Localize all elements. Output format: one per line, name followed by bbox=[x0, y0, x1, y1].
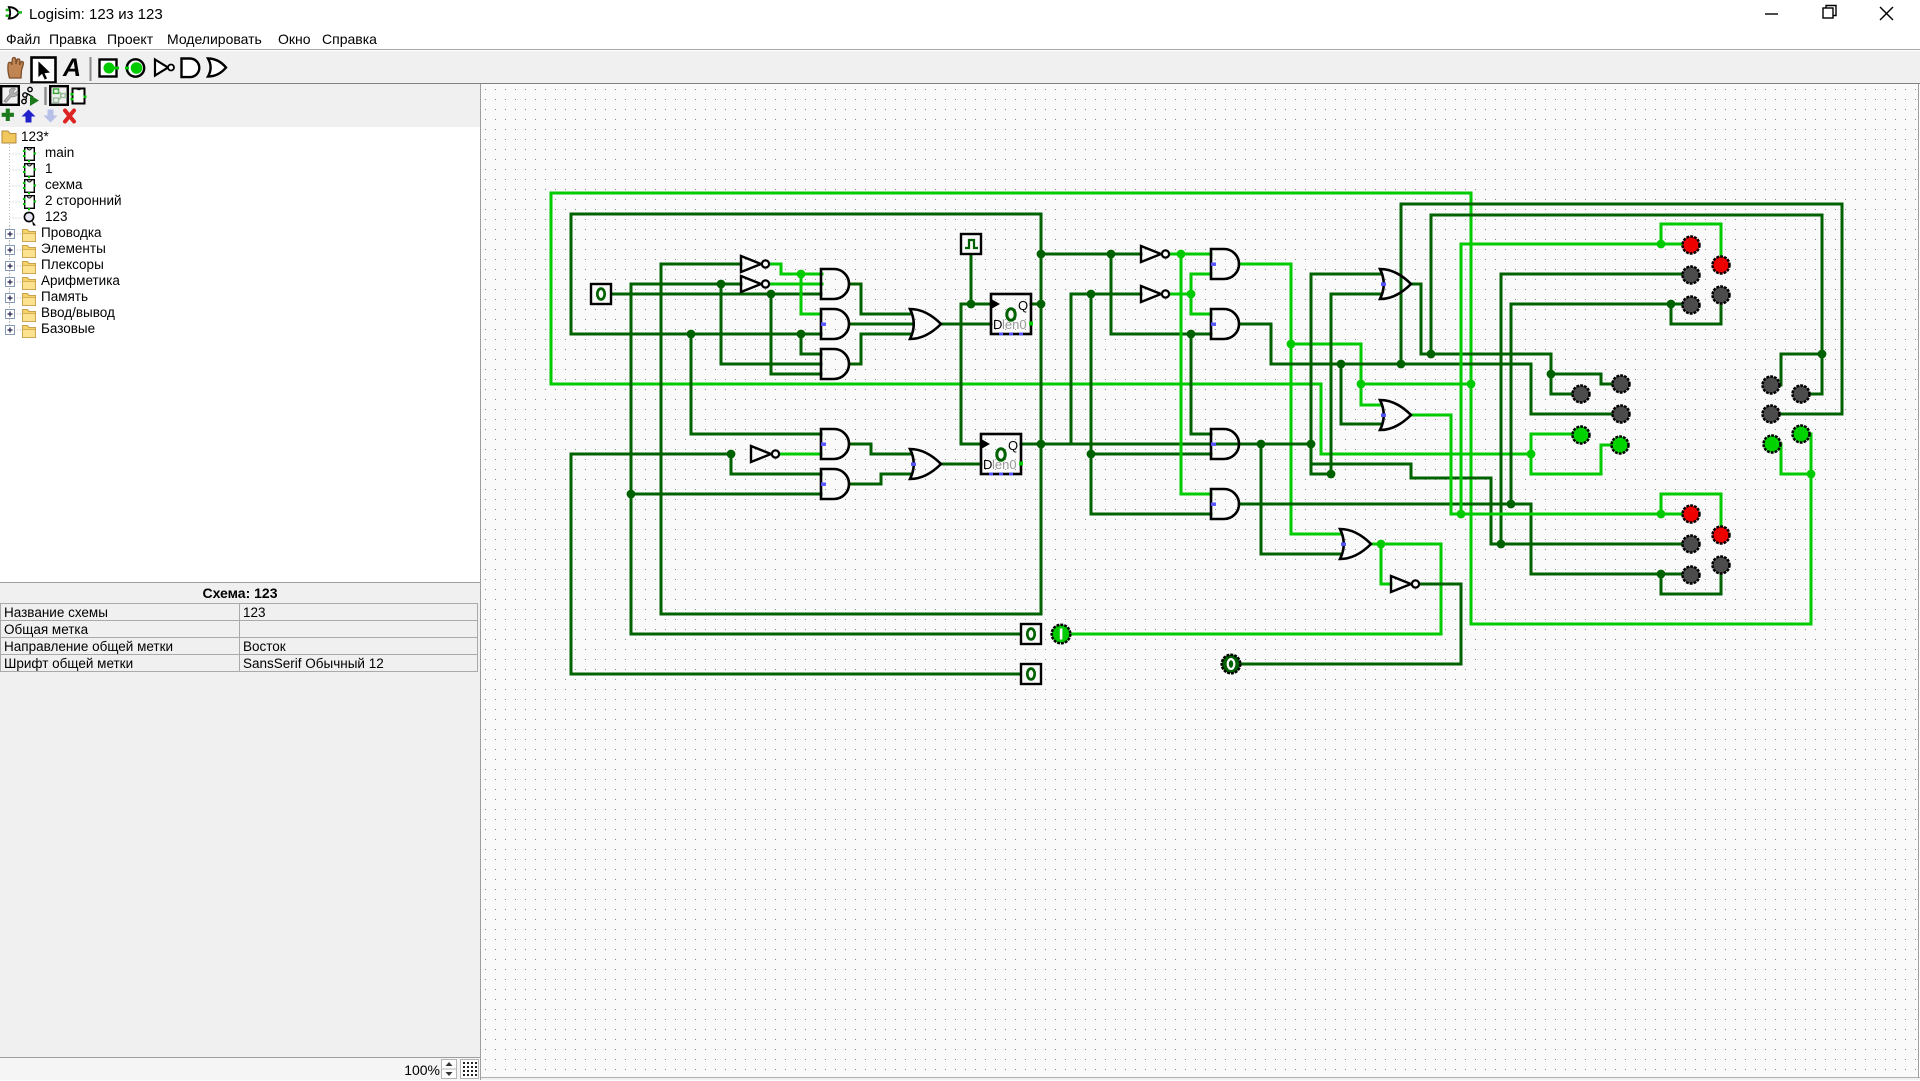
wire to OR1 in2 bbox=[1331, 293, 1381, 296]
svg-text:Плексоры: Плексоры bbox=[41, 257, 104, 272]
node J m-green bbox=[1527, 450, 1536, 459]
AND gate ANDB1 bbox=[821, 429, 849, 459]
input pin pin B bbox=[1021, 624, 1041, 644]
wire gy55 to output pin 1 bbox=[1072, 633, 1441, 636]
node J gx15/gy41 bbox=[627, 490, 636, 499]
wire gx90 bbox=[1380, 544, 1383, 584]
wire to OR1a in1 bbox=[861, 313, 911, 316]
svg-text:Ввод/вывод: Ввод/вывод bbox=[41, 305, 115, 320]
node J AND3out/gx78 bbox=[1257, 440, 1266, 449]
node J gy25/AND3a bbox=[797, 330, 806, 339]
input pin pin C bbox=[1021, 664, 1041, 684]
wire gx24 bbox=[720, 284, 723, 364]
wire net1 top gy11 bbox=[551, 192, 1471, 195]
wire to bottom LED5 bbox=[1661, 573, 1682, 576]
wire gx32 green bbox=[800, 274, 803, 314]
wire gy27 right seg bbox=[1781, 353, 1822, 356]
wire LED e drop bbox=[1780, 444, 1783, 474]
LED M2 off bbox=[1613, 376, 1630, 393]
wire gx63 bbox=[1110, 254, 1113, 334]
wire gy41 to ANDB2 in2 bbox=[631, 493, 821, 496]
node J gx98/gy43 bbox=[1457, 510, 1466, 519]
wire gx103 bbox=[1510, 304, 1513, 504]
NOT gate NOT1a bbox=[741, 256, 761, 272]
wire gy27 left seg bbox=[1431, 353, 1551, 356]
wire AND6 out bbox=[1241, 323, 1271, 326]
wire gy13 right bbox=[1431, 214, 1822, 217]
NOT gate NOT4 bbox=[1141, 286, 1161, 302]
wire gx83 bbox=[1310, 274, 1313, 474]
wire gx88 bbox=[1360, 344, 1363, 405]
svg-text:сехма: сехма bbox=[45, 177, 83, 192]
wire gy20 to NOT2a bbox=[631, 283, 741, 286]
LED M4 green bbox=[1573, 427, 1590, 444]
wire up bbox=[1660, 494, 1663, 514]
wire gy29 mid bbox=[1551, 373, 1601, 376]
wire gx48 down bbox=[960, 304, 963, 444]
row3: plus, up, down, x bbox=[2, 109, 74, 123]
wire gy25 left to AND2a bbox=[571, 333, 821, 336]
select tool (active) bbox=[32, 58, 56, 83]
node J gy16 bbox=[1657, 240, 1666, 249]
wire gx81 down bbox=[1290, 264, 1293, 534]
wire jog bbox=[1451, 513, 1461, 516]
AND gate icon bbox=[182, 59, 200, 78]
wire gy14 bbox=[1661, 223, 1721, 226]
node J gy28/gx92 bbox=[1397, 360, 1406, 369]
wire to AND2a in1 bbox=[801, 313, 821, 316]
wire NOT5 out bbox=[1420, 583, 1461, 586]
project icon box bbox=[50, 86, 68, 105]
LED T3 off bbox=[1683, 267, 1700, 284]
wire to ORx in1 bbox=[1361, 404, 1381, 407]
wire gx136 bbox=[1841, 204, 1844, 414]
node J gx99/gy30 bbox=[1467, 380, 1476, 389]
wire gy28 bbox=[1271, 363, 1531, 366]
wire jog bbox=[1421, 353, 1431, 356]
node J ORmid out bbox=[1377, 540, 1386, 549]
LED R1 off bbox=[1763, 377, 1780, 394]
wire jog bbox=[860, 284, 863, 314]
wire gy21 to NOT4 bbox=[1071, 293, 1141, 296]
node J clock bbox=[967, 300, 976, 309]
wrench tool box bbox=[1, 86, 19, 105]
LED R4 green bbox=[1793, 426, 1810, 443]
wire to top red2 bbox=[1720, 224, 1723, 256]
wire gy19 to top LED3 bbox=[1501, 273, 1682, 276]
node J AND3out/gx83 bbox=[1307, 440, 1316, 449]
node J gy43 bbox=[1657, 510, 1666, 519]
AND gate AND4 bbox=[1211, 489, 1239, 519]
wire gy30 right bbox=[1361, 383, 1471, 386]
wire jog bbox=[860, 334, 863, 364]
node J gy37/gx25 bbox=[727, 450, 736, 459]
AND gate ANDB2 bbox=[821, 469, 849, 499]
wire to AND3a in2 bbox=[721, 363, 821, 366]
wire AND3 out bbox=[1241, 443, 1311, 446]
wire gx85 bbox=[1330, 294, 1333, 474]
wire gx29 bbox=[770, 294, 773, 374]
wire gy51 bbox=[1661, 593, 1721, 596]
LED B5 off bbox=[1683, 567, 1700, 584]
OR gate ORmid bbox=[1340, 529, 1371, 559]
LED R2 off bbox=[1793, 386, 1810, 403]
wire gx9 upper bbox=[570, 214, 573, 334]
node J gy20/gx24 bbox=[717, 280, 726, 289]
D latch latch2 bbox=[981, 434, 1023, 476]
wire latch1 Q out bbox=[1031, 303, 1041, 306]
wire gx96 bbox=[1440, 544, 1443, 634]
wire to ORB in1 bbox=[871, 453, 911, 456]
wire gy12 bbox=[1401, 203, 1842, 206]
wire gy38 bbox=[1311, 463, 1411, 466]
wire to bottom LED4 bbox=[1720, 574, 1723, 594]
wire to LED m5 bbox=[1601, 444, 1612, 447]
wire to ANDB2 in1 bbox=[731, 473, 821, 476]
wire gx98 dark bbox=[1460, 584, 1463, 664]
wire gx56 spine bbox=[1040, 214, 1043, 614]
wire to LED d bbox=[1802, 433, 1811, 436]
AND gate AND5 bbox=[1211, 249, 1239, 279]
node J gx107/gy29 bbox=[1547, 370, 1556, 379]
wire jog bbox=[780, 264, 783, 274]
wire gx102 bbox=[1500, 274, 1503, 544]
LED R3 off bbox=[1763, 406, 1780, 423]
svg-text:D: D bbox=[993, 317, 1002, 332]
LED B4 off bbox=[1713, 557, 1730, 574]
separator bbox=[90, 57, 92, 81]
wire to AND3 in1 bbox=[1191, 433, 1211, 436]
wire gy16 bbox=[1461, 243, 1661, 246]
node J gx81/gy26 bbox=[1287, 340, 1296, 349]
OR gate icon bbox=[208, 59, 226, 77]
wire AND5 out bbox=[1241, 263, 1291, 266]
node J gx56/Q1 bbox=[1037, 300, 1046, 309]
node J gx134/gy27 bbox=[1818, 350, 1827, 359]
LED T5 off bbox=[1683, 297, 1700, 314]
wire to LED m2 bbox=[1601, 383, 1612, 386]
wire left jog bbox=[961, 303, 971, 306]
wire gx95 bbox=[1430, 215, 1433, 354]
node J gy28/gx86 bbox=[1337, 360, 1346, 369]
wire gy25 right to AND6 bbox=[1111, 333, 1211, 336]
svg-text:1: 1 bbox=[45, 161, 53, 176]
wire gx98 green bbox=[1460, 244, 1463, 514]
wire to AND4 in1 bbox=[1181, 493, 1211, 496]
svg-text:123: 123 bbox=[45, 209, 68, 224]
node J NOT4 out bbox=[1187, 290, 1196, 299]
wire to bottom red1 bbox=[1661, 513, 1682, 516]
wire gx25 bbox=[730, 454, 733, 474]
svg-text:Базовые: Базовые bbox=[41, 321, 95, 336]
node J gx85 bbox=[1327, 470, 1336, 479]
wire gx18 bbox=[660, 264, 663, 614]
wire gx9 lower bbox=[570, 454, 573, 674]
LED B3 off bbox=[1683, 536, 1700, 553]
wire drop bbox=[1660, 574, 1663, 594]
wire AND3a out bbox=[851, 363, 861, 366]
wire gx97 bbox=[1450, 415, 1453, 514]
svg-text:123*: 123* bbox=[21, 129, 50, 144]
NOT gate NOT2a bbox=[741, 276, 761, 292]
wire gx105 upper bbox=[1530, 364, 1533, 414]
wire AND2a out to OR1a in2 bbox=[851, 323, 911, 326]
wire jog bbox=[1410, 464, 1413, 478]
wire net1 mid-green horizontal bbox=[1321, 453, 1531, 456]
node J gy30r bbox=[1357, 380, 1366, 389]
AND gate AND3 bbox=[1211, 429, 1239, 459]
wire to top LED5 bbox=[1671, 303, 1682, 306]
output pin icon bbox=[127, 59, 144, 76]
svg-text:Память: Память bbox=[41, 289, 88, 304]
chip icon bbox=[73, 89, 85, 104]
LED M5 green bbox=[1612, 437, 1629, 454]
node J gy25r/gx71 bbox=[1187, 330, 1196, 339]
wire to LED a bbox=[1780, 354, 1783, 385]
wire gx61 bbox=[1090, 294, 1093, 514]
wire gx70 long green bbox=[1180, 254, 1183, 494]
wire gy35 to ANDB1 bbox=[691, 433, 821, 436]
wire to LED b bbox=[1810, 393, 1822, 396]
svg-text:A: A bbox=[62, 54, 81, 82]
node J gx56/gy17 bbox=[1037, 250, 1046, 259]
svg-text:Q: Q bbox=[1008, 438, 1018, 453]
wire gy17 to NOT3 bbox=[1041, 253, 1141, 256]
node J gy25/gx21 bbox=[687, 330, 696, 339]
wire gx59 riser bbox=[1070, 294, 1073, 444]
node J NOT1a out bbox=[797, 270, 806, 279]
wire OR1 out bbox=[1411, 283, 1421, 286]
node J gy21/gx61 bbox=[1087, 290, 1096, 299]
NOT gate NOT3 bbox=[1141, 246, 1161, 262]
wire clock drop bbox=[970, 254, 973, 304]
wire to AND1a in1 bbox=[781, 273, 822, 276]
wire OR1a out to latch1 D bbox=[941, 323, 991, 326]
wire gx86 bbox=[1340, 364, 1343, 424]
wire gy46 to bottom LED3 bbox=[1501, 543, 1682, 546]
wire riser LED m5 bbox=[1600, 445, 1603, 474]
wire gy43 bbox=[1461, 513, 1661, 516]
wire net1 gx105 green bbox=[1530, 434, 1533, 474]
svg-text:2 сторонний: 2 сторонний bbox=[45, 193, 122, 208]
wire gx71 green jogs bbox=[1190, 274, 1193, 314]
wire gy37 left bbox=[571, 453, 731, 456]
wire ANDB2 out bbox=[851, 483, 881, 486]
AND gate AND2a bbox=[821, 309, 849, 339]
wire NOT6a out to ANDB1 in2 bbox=[776, 453, 821, 456]
wire to top LED4 bbox=[1720, 304, 1723, 324]
wire link bbox=[1311, 473, 1331, 476]
wire NOT4 out bbox=[1166, 293, 1191, 296]
LED R5 green bbox=[1764, 436, 1781, 453]
wire gx71 dark bbox=[1190, 334, 1193, 434]
wire to OR1 in1 bbox=[1311, 273, 1381, 276]
wire gy39 right bbox=[1781, 473, 1811, 476]
wire gx78 bbox=[1260, 444, 1263, 554]
wire NOT1a out bbox=[770, 263, 781, 266]
node J NOT3 out bbox=[1177, 250, 1186, 259]
NOT gate icon bbox=[155, 60, 168, 76]
node J gy22 bbox=[1667, 300, 1676, 309]
wire gy43 to AND4 in2 bbox=[1091, 513, 1211, 516]
wire gx15 bbox=[630, 284, 633, 634]
D latch latch1 bbox=[991, 294, 1033, 336]
svg-text:main: main bbox=[45, 145, 74, 160]
wire AND4 out gy42 bbox=[1241, 503, 1531, 506]
wire gx107 bbox=[1550, 354, 1553, 394]
OR gate OR1 bbox=[1380, 269, 1411, 299]
wire gy13 left bbox=[571, 213, 1041, 216]
svg-text:D: D bbox=[983, 457, 992, 472]
wire jog bbox=[870, 444, 873, 454]
LED T4 off bbox=[1713, 287, 1730, 304]
wire gx101 bbox=[1490, 478, 1493, 544]
LED B2 red bbox=[1713, 527, 1730, 544]
hand poke tool bbox=[8, 57, 24, 78]
wire to ORmid in1 bbox=[1291, 533, 1341, 536]
node J gx133/gy39 bbox=[1807, 470, 1816, 479]
wire branch to AND3a in1 bbox=[800, 334, 803, 354]
wire gy41r bbox=[1661, 493, 1721, 496]
node J gx102/gy46 bbox=[1497, 540, 1506, 549]
svg-text:Элементы: Элементы bbox=[41, 241, 106, 256]
wire ORx out bbox=[1411, 414, 1451, 417]
wire to NOT1a bbox=[661, 263, 741, 266]
wire up bbox=[1660, 224, 1663, 244]
wire ORmid out / gy46 green bbox=[1371, 543, 1441, 546]
node J gy17/gx63 bbox=[1107, 250, 1116, 259]
wire to AND3a in1 bbox=[801, 353, 821, 356]
svg-text:Арифметика: Арифметика bbox=[41, 273, 120, 288]
wire ANDB1 out bbox=[851, 443, 871, 446]
wire pin1a wire gy21 bbox=[611, 293, 821, 296]
output pin out pin 1 bbox=[1052, 625, 1071, 644]
wire gy22 right bbox=[1511, 303, 1671, 306]
node J gx95/gy27 bbox=[1427, 350, 1436, 359]
wire jog bbox=[1491, 543, 1501, 546]
wire latch2 Q out / gy36 bbox=[1021, 443, 1261, 446]
OR gate OR1a bbox=[910, 309, 941, 339]
svg-text:Q: Q bbox=[1018, 298, 1028, 313]
wire to bottom red2 bbox=[1720, 494, 1723, 525]
wire jog bbox=[880, 474, 883, 484]
wire gx134 bbox=[1821, 215, 1824, 394]
wire gy26 link bbox=[1291, 343, 1361, 346]
wire to OR1a in3 bbox=[861, 333, 911, 336]
wire ORB out to latch2 D bbox=[941, 463, 981, 466]
node J pin1a/gx29 bbox=[767, 290, 776, 299]
LED M1 off bbox=[1573, 386, 1590, 403]
wire NOT2a out to AND1a in2 bbox=[770, 283, 822, 286]
wire net1 left gx7 bbox=[550, 193, 553, 384]
wire gy58 to output pin 0 bbox=[1241, 663, 1461, 666]
root folder bbox=[2, 131, 16, 143]
wire net1 gy39 bbox=[1531, 473, 1601, 476]
LED T2 red bbox=[1713, 257, 1730, 274]
svg-text:Проводка: Проводка bbox=[41, 225, 102, 240]
clock CLK bbox=[961, 234, 981, 254]
NOT gate NOT5 bbox=[1391, 576, 1411, 592]
NOT gate NOT6a bbox=[751, 446, 771, 462]
simulate icon bbox=[22, 87, 33, 103]
wire gx21 bbox=[690, 334, 693, 434]
wire to AND3a in3 bbox=[771, 373, 821, 376]
wire to ORx in2 bbox=[1341, 423, 1381, 426]
wire to AND6 in1 bbox=[1191, 313, 1211, 316]
wire net1 gx84 down bbox=[1320, 384, 1323, 454]
OR gate ORx bbox=[1380, 400, 1411, 430]
output pin out pin 0 bbox=[1222, 655, 1241, 674]
wire to ORmid in2 bbox=[1261, 553, 1341, 556]
wire to ORB in2 bbox=[881, 473, 911, 476]
wire gy54 bottom green bbox=[1471, 623, 1811, 626]
unused input markers bbox=[821, 323, 826, 326]
wire to AND5 in2 bbox=[1191, 273, 1211, 276]
wire to latch2 clk bbox=[961, 443, 981, 446]
wire gy24 bbox=[1671, 323, 1721, 326]
LED B1 red bbox=[1683, 506, 1700, 523]
wire gy49 bbox=[1531, 573, 1661, 576]
LED T1 red bbox=[1683, 237, 1700, 254]
input pin pin A bbox=[591, 284, 611, 304]
wire gy33 right to LED c bbox=[1781, 413, 1842, 416]
wire gx94 bbox=[1420, 284, 1423, 354]
wire gx92 bbox=[1400, 204, 1403, 364]
wire gx133 up to LED d bbox=[1810, 434, 1813, 624]
wire gy37 to AND3 in2 bbox=[1091, 453, 1211, 456]
AND gate AND6 bbox=[1211, 309, 1239, 339]
wire gy40 bbox=[1411, 477, 1491, 480]
AND gate AND3a bbox=[821, 349, 849, 379]
wire to LED m1 bbox=[1551, 393, 1572, 396]
wire gy53 bbox=[661, 613, 1041, 616]
wire to NOT5 bbox=[1381, 583, 1391, 586]
wire drop bbox=[1270, 324, 1273, 364]
wire gx99 right side bbox=[1470, 193, 1473, 624]
wire net1 bottom-left gy30 bbox=[551, 383, 1321, 386]
wire to latch1 clk bbox=[971, 303, 991, 306]
wire AND1a out bbox=[851, 283, 861, 286]
separator bbox=[44, 87, 46, 105]
wire to LED m4 bbox=[1531, 433, 1572, 436]
input pin icon bbox=[100, 60, 117, 77]
wire gy59 bbox=[571, 673, 1021, 676]
wire gx105 lower bbox=[1530, 504, 1533, 574]
node J gx56/Q2 bbox=[1037, 440, 1046, 449]
wire NOT3 out to AND5 in1 bbox=[1166, 253, 1211, 256]
wire drop bbox=[1670, 304, 1673, 324]
wire to top red1 bbox=[1661, 243, 1682, 246]
LED M3 off bbox=[1613, 406, 1630, 423]
node J gy42/gx103 bbox=[1507, 500, 1516, 509]
wire gy33 mid to LED m3 bbox=[1531, 413, 1612, 416]
wire gy55 left bbox=[631, 633, 1021, 636]
node J gy49 bbox=[1657, 570, 1666, 579]
AND gate AND1a bbox=[821, 269, 849, 299]
node J gx61/gy37 bbox=[1087, 450, 1096, 459]
OR gate ORB bbox=[910, 449, 941, 479]
wire jog bbox=[1600, 374, 1603, 384]
